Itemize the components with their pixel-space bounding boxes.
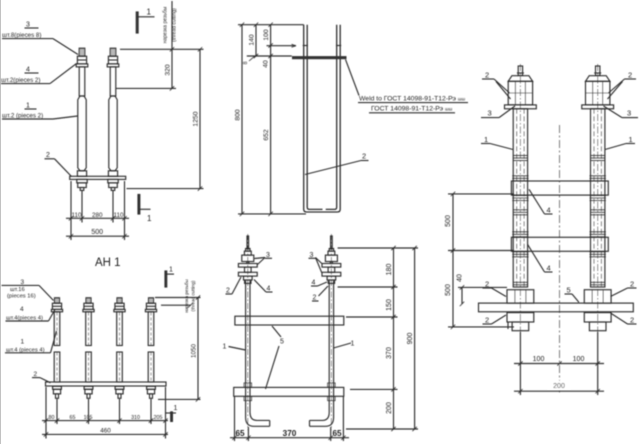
label 1 <box>21 339 25 346</box>
svg-text:2: 2 <box>485 316 489 325</box>
label 2 <box>362 152 366 161</box>
label 4 <box>26 67 30 74</box>
svg-text:900: 900 <box>407 333 414 345</box>
svg-text:2: 2 <box>628 71 632 80</box>
svg-text:320: 320 <box>165 64 172 76</box>
label 2 <box>34 371 38 378</box>
label 3 right <box>310 252 314 259</box>
label 4 upper <box>547 206 551 215</box>
leader 3 <box>39 285 54 300</box>
note thread cutting (rotated) <box>163 6 178 43</box>
bolt A2 <box>107 48 119 190</box>
svg-text:2: 2 <box>34 371 38 378</box>
channel bar <box>234 387 344 396</box>
leader 4 <box>49 310 56 322</box>
svg-text:1: 1 <box>223 344 227 351</box>
svg-text:2: 2 <box>630 280 634 289</box>
dimension 100 40 652 <box>270 25 272 214</box>
extension line bottom <box>158 398 201 400</box>
label 5 <box>567 286 571 295</box>
svg-text:40: 40 <box>457 274 464 282</box>
svg-text:200: 200 <box>386 402 393 414</box>
label 1 left <box>223 344 227 351</box>
svg-text:4: 4 <box>547 206 551 215</box>
label 3 left <box>266 252 270 259</box>
U-rod outer <box>304 25 341 212</box>
svg-text:652: 652 <box>263 129 270 141</box>
svg-text:АН 1: АН 1 <box>95 257 121 269</box>
section mark 1 top <box>165 271 167 287</box>
svg-text:80: 80 <box>49 415 55 421</box>
svg-text:ГОСТ 14098-91-Т12-Рэ шш: ГОСТ 14098-91-Т12-Рэ шш <box>371 106 453 113</box>
svg-text:2: 2 <box>485 71 489 80</box>
label 3 right <box>627 109 631 118</box>
dimension 40 <box>461 287 463 304</box>
rod D2 hook <box>310 281 334 427</box>
leader 2 <box>55 159 72 177</box>
leader 3 <box>53 39 78 55</box>
label 1 right <box>629 135 633 144</box>
bolt E2 <box>582 64 614 336</box>
svg-text:8: 8 <box>243 61 249 64</box>
svg-text:105: 105 <box>84 415 93 421</box>
section mark 1 bottom <box>166 412 176 414</box>
svg-text:200: 200 <box>553 383 565 390</box>
leader 1 <box>51 331 57 353</box>
bolt C2 <box>83 298 94 399</box>
label 2 <box>46 152 50 159</box>
svg-text:3: 3 <box>488 109 492 118</box>
svg-text:1: 1 <box>484 135 488 144</box>
svg-text:500: 500 <box>445 284 452 296</box>
base plate <box>46 382 167 386</box>
label 1 right <box>351 341 355 348</box>
svg-text:5: 5 <box>567 286 571 295</box>
label 2 bottom-left upper <box>485 280 489 289</box>
svg-text:150: 150 <box>386 299 393 311</box>
bottom plate <box>479 303 634 312</box>
dimension total 460 <box>42 433 168 435</box>
base plate <box>70 176 126 179</box>
U-rod inner <box>307 25 322 210</box>
coupling band 2 <box>511 237 608 251</box>
svg-text:280: 280 <box>92 212 103 219</box>
leader 2 <box>40 378 51 383</box>
svg-text:2: 2 <box>362 152 366 161</box>
svg-text:1: 1 <box>147 8 152 17</box>
label 4 lower <box>547 264 551 273</box>
dimension 1050 <box>197 298 199 400</box>
dimension 140 <box>255 25 257 56</box>
svg-text:370: 370 <box>386 347 393 359</box>
dimension 500 <box>66 235 129 237</box>
svg-text:2: 2 <box>46 152 50 159</box>
svg-text:460: 460 <box>100 428 111 435</box>
weld note leader <box>346 60 360 96</box>
bolt C1 <box>51 298 62 399</box>
section mark 1 bottom <box>138 195 140 215</box>
svg-text:шт.2(pieces 2): шт.2(pieces 2) <box>1 77 40 84</box>
section mark 1 top <box>136 12 138 33</box>
svg-text:800: 800 <box>235 109 242 121</box>
label 1 <box>26 103 30 110</box>
label 2 top-left <box>485 71 489 80</box>
extension lines left <box>448 193 514 195</box>
svg-text:1250: 1250 <box>193 111 200 126</box>
dimension 500 500 <box>452 194 454 327</box>
svg-text:110: 110 <box>71 212 82 219</box>
svg-text:65: 65 <box>332 429 342 438</box>
label 2 bottom-right upper <box>630 280 634 289</box>
svg-text:(pieces 16): (pieces 16) <box>7 293 36 299</box>
svg-text:500: 500 <box>91 229 103 236</box>
extension line bottom tip <box>127 188 204 190</box>
label 3 <box>21 279 25 286</box>
svg-text:(thread cutting): (thread cutting) <box>191 280 196 311</box>
svg-text:(thread cutting): (thread cutting) <box>172 8 178 42</box>
dimension row 80 65 105 310 205 <box>42 420 168 422</box>
svg-text:1: 1 <box>629 135 633 144</box>
note rotated <box>184 279 196 313</box>
dimension 110 280 110 <box>66 217 129 219</box>
dimension 200 <box>514 390 604 392</box>
rod D2 top assembly <box>322 234 341 430</box>
weld note text <box>359 96 465 103</box>
svg-text:40: 40 <box>263 60 270 68</box>
extension line thread end <box>116 87 176 89</box>
plate thickness 8 <box>243 61 249 64</box>
svg-text:100: 100 <box>573 356 585 363</box>
extension lines bottom <box>247 427 249 441</box>
svg-text:205: 205 <box>154 415 163 421</box>
extension line thread <box>161 304 191 306</box>
svg-text:5: 5 <box>280 339 284 346</box>
coupling band 1 <box>511 181 608 195</box>
label 4 right <box>312 280 316 287</box>
bolt A1 <box>76 48 88 190</box>
thread marks <box>303 45 308 47</box>
label 3 left <box>488 109 492 118</box>
svg-text:1: 1 <box>174 405 178 412</box>
svg-text:310: 310 <box>131 415 140 421</box>
svg-text:2: 2 <box>630 316 634 325</box>
bolt E1 <box>505 64 537 336</box>
extension line top <box>120 48 204 50</box>
label 4 <box>20 306 24 313</box>
channel wall right <box>342 396 344 441</box>
center line <box>559 125 561 393</box>
rod D1 top assembly <box>238 234 257 430</box>
svg-text:100: 100 <box>533 356 545 363</box>
extension lines bottom <box>519 332 521 395</box>
extension lines bottom <box>45 387 47 439</box>
dimension 800 <box>241 25 243 214</box>
dimension 320 <box>171 1 173 88</box>
label 2 bottom-left lower <box>485 316 489 325</box>
svg-text:65: 65 <box>235 429 245 438</box>
svg-text:1: 1 <box>169 267 173 274</box>
cross plate <box>292 56 347 59</box>
extension lines <box>238 24 304 26</box>
leader 2 <box>305 161 361 175</box>
label 3 <box>26 22 30 29</box>
svg-text:1: 1 <box>147 214 152 223</box>
svg-text:65: 65 <box>70 415 76 421</box>
svg-text:нарезка резьбы: нарезка резьбы <box>184 279 189 313</box>
label 2 bottom-right lower <box>630 316 634 325</box>
rod D1 hook <box>246 281 270 427</box>
svg-text:нарезка резьбы: нарезка резьбы <box>163 6 169 43</box>
bolt C4 <box>145 298 156 399</box>
leader 4 <box>50 64 77 84</box>
svg-text:1: 1 <box>21 339 25 346</box>
svg-text:Weld to ГОСТ 14098-91-Т12-Рэ ш: Weld to ГОСТ 14098-91-Т12-Рэ шш <box>359 96 465 103</box>
label 1 left <box>484 135 488 144</box>
upper plate <box>235 316 344 325</box>
extension lines right <box>338 247 418 249</box>
svg-text:1050: 1050 <box>191 344 198 359</box>
svg-text:180: 180 <box>386 264 393 276</box>
svg-text:370: 370 <box>283 429 297 438</box>
label 2 top-right <box>628 71 632 80</box>
label 4 left <box>267 286 271 293</box>
svg-text:шт.8(pieces 8): шт.8(pieces 8) <box>2 32 41 39</box>
dimension 180 150 370 200 <box>393 248 395 429</box>
svg-text:шт.16: шт.16 <box>10 287 25 293</box>
svg-text:100: 100 <box>263 29 270 41</box>
label 5 <box>280 339 284 346</box>
bolt C3 <box>114 298 125 399</box>
extension lines bottom <box>70 181 72 240</box>
svg-text:1: 1 <box>351 341 355 348</box>
leader 1 <box>53 116 78 119</box>
dimension 900 <box>414 248 416 429</box>
scan edge line <box>0 0 1 444</box>
svg-text:140: 140 <box>249 34 256 46</box>
dimension 65 370 65 <box>230 437 349 439</box>
label 2 left <box>226 288 230 295</box>
svg-text:4: 4 <box>547 264 551 273</box>
label 2 right <box>313 295 317 302</box>
dimension 1250 <box>199 49 201 188</box>
channel wall left <box>234 396 236 441</box>
extension line top right <box>155 297 201 299</box>
dimension 100 100 <box>514 363 604 365</box>
svg-text:110: 110 <box>113 212 124 219</box>
svg-text:3: 3 <box>627 109 631 118</box>
title AN 1 <box>95 257 121 269</box>
svg-text:4: 4 <box>20 306 24 313</box>
svg-text:500: 500 <box>445 215 452 227</box>
